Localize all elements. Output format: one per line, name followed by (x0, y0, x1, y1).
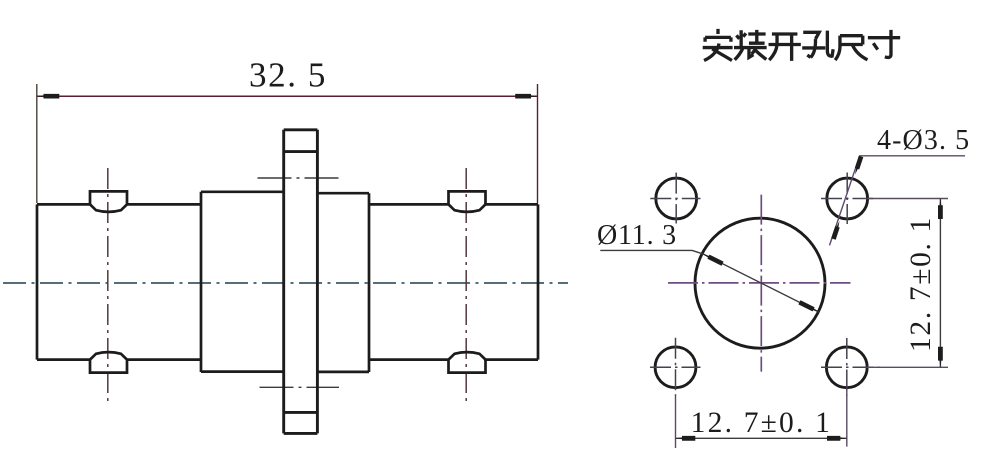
right dim line vertical (939, 199, 941, 368)
diameter arrow upper-left (703, 254, 724, 266)
left cylinder outline (37, 204, 201, 359)
title mounting-hole-dimensions (hand-drawn CJK) (703, 29, 900, 61)
hole circle top-left (656, 178, 697, 219)
flange plate verticals (284, 130, 318, 434)
right dim extension top (869, 198, 949, 200)
svg-text:4-Ø3. 5: 4-Ø3. 5 (877, 125, 970, 156)
flange hole centerline top (258, 177, 343, 179)
bottom dim arrow right (827, 436, 847, 441)
center body outline (201, 192, 369, 372)
label 4-D3.5 leader (830, 156, 966, 246)
label D11.3 underline leader (600, 250, 703, 254)
big circle horizontal centerline (668, 282, 851, 284)
bottom dim extension left (675, 396, 677, 448)
hole BR crosshair (821, 338, 883, 396)
bayonet pin top-right (449, 191, 486, 212)
hole circle bottom-right (826, 347, 867, 388)
flange plate horizontals (284, 130, 318, 434)
dimension 32.5 arrow left (37, 94, 59, 99)
hole circle bottom-left (655, 347, 696, 388)
right dim arrow bottom (938, 347, 943, 367)
char Kai (769, 34, 801, 61)
svg-text:Ø11. 3: Ø11. 3 (597, 220, 677, 251)
right cylinder outline (369, 204, 538, 359)
leader arrow bottom (tip at hole rim) (831, 221, 840, 240)
main horizontal centerline (left view) (3, 282, 568, 284)
bottom dim arrow left (676, 436, 696, 441)
right dim arrow top (938, 199, 943, 219)
pin centerline right (465, 168, 467, 402)
svg-text:12. 7±0. 1: 12. 7±0. 1 (691, 407, 832, 439)
char Cun (868, 30, 900, 58)
pin centerline left (107, 168, 109, 402)
bayonet pin bottom-left (90, 352, 127, 373)
bayonet pin bottom-right (449, 352, 486, 373)
char An (703, 29, 733, 61)
dimension 32.5 line (37, 95, 538, 97)
svg-text:12. 7±0. 1: 12. 7±0. 1 (905, 216, 937, 352)
char Kong (802, 31, 833, 58)
bottom dim line (676, 437, 847, 439)
big circle vertical centerline (760, 195, 762, 372)
big circle diameter line (703, 254, 819, 312)
char Chi (835, 36, 867, 60)
flange hole centerline bottom (260, 386, 340, 388)
svg-text:32. 5: 32. 5 (249, 56, 327, 95)
dimension 32.5 extension line right (537, 84, 539, 203)
hole circle top-right (827, 178, 868, 219)
right dim extension bottom (867, 366, 948, 368)
hole TR crosshair (821, 173, 873, 225)
bottom dim extension right (846, 390, 848, 447)
hole BL crosshair (650, 338, 701, 396)
bayonet pin top-left (90, 191, 127, 212)
char Zhuang (734, 30, 767, 60)
diameter arrow lower-right (798, 300, 819, 312)
big circle D11.3 (695, 218, 825, 348)
hole TL crosshair (650, 173, 700, 224)
leader arrow top (tip at hole rim) (855, 156, 864, 175)
dimension 32.5 arrow right (515, 94, 537, 99)
dimension 32.5 extension line left (36, 84, 38, 203)
